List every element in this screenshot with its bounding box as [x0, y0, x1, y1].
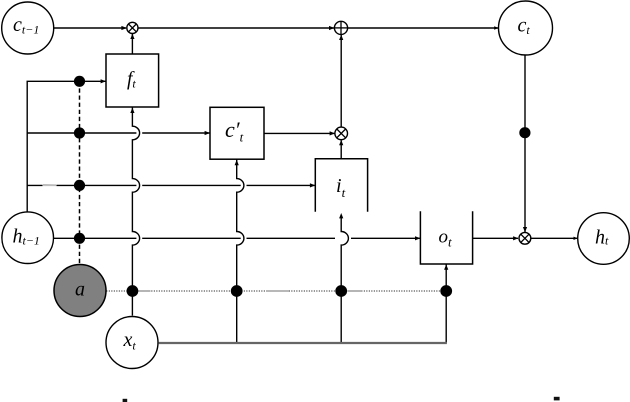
wire ci-multiply up to add [339, 35, 343, 127]
junction dot row1 [74, 76, 85, 87]
wire forget-multiply to add [138, 26, 334, 30]
multiply node output [519, 232, 531, 244]
wire i_t column down with hop [339, 213, 348, 343]
wire f_t output up to forget-multiply [130, 34, 134, 54]
wire dotted a-row [106, 290, 446, 292]
junction dot row4 [74, 233, 85, 244]
wire a-row solid segment 2 [266, 290, 289, 292]
wire row3 h to i_t [27, 183, 315, 187]
node a (gray) [54, 265, 106, 317]
wire a-row solid segment 3 [348, 290, 361, 292]
wire add to c_t [348, 26, 499, 29]
wire c_{t-1} to forget-multiply [54, 26, 127, 30]
wire c'_t output to ci-multiply [264, 131, 335, 135]
caption fragment left [123, 399, 128, 402]
node c_t [499, 1, 553, 55]
junction dot c_t column [519, 127, 530, 138]
wire row2 h to c'_t [27, 131, 210, 135]
wire o_t column down to x_t row [444, 264, 448, 343]
wire a-row solid segment 1 [138, 290, 151, 292]
wire c_t column down to out-multiply [523, 55, 527, 232]
wire f_t column down to x_t with hops [130, 107, 139, 316]
junction dot a-row i column [335, 285, 347, 297]
wire dashed a-column [79, 81, 81, 264]
multiply node ci [335, 127, 348, 140]
wire left bus vertical from h_{t-1} [26, 81, 28, 212]
junction dot a-row f column [126, 285, 138, 297]
node h_t [578, 213, 630, 265]
add node [334, 21, 347, 34]
multiply node forget [127, 22, 138, 33]
wire x_t row (gray) [159, 342, 447, 344]
wire i_t up to ci-multiply [339, 140, 343, 159]
wire row4 h to o_t [53, 236, 420, 240]
node h_{t-1} [2, 212, 54, 264]
box c'_t [210, 107, 264, 159]
wire out-multiply to h_t [531, 237, 578, 240]
box o_t (open top) [420, 211, 472, 264]
junction dot row3 [74, 180, 85, 191]
box i_t (open bottom) [315, 159, 367, 212]
node x_t [106, 317, 158, 369]
node c_{t-1} [2, 2, 54, 54]
svg-text:a: a [75, 278, 85, 300]
wire row1 h to f_t [27, 79, 107, 83]
junction dot a-row c' column [231, 285, 243, 297]
wire c'_t column down with hops [235, 159, 244, 343]
wire row3 faint smudge [43, 184, 57, 187]
box f_t [106, 54, 159, 107]
junction dot row2 [74, 127, 85, 138]
caption fragment right [554, 397, 560, 401]
wire o_t output to out-multiply [473, 236, 519, 240]
junction dot a-row o column [440, 285, 452, 297]
